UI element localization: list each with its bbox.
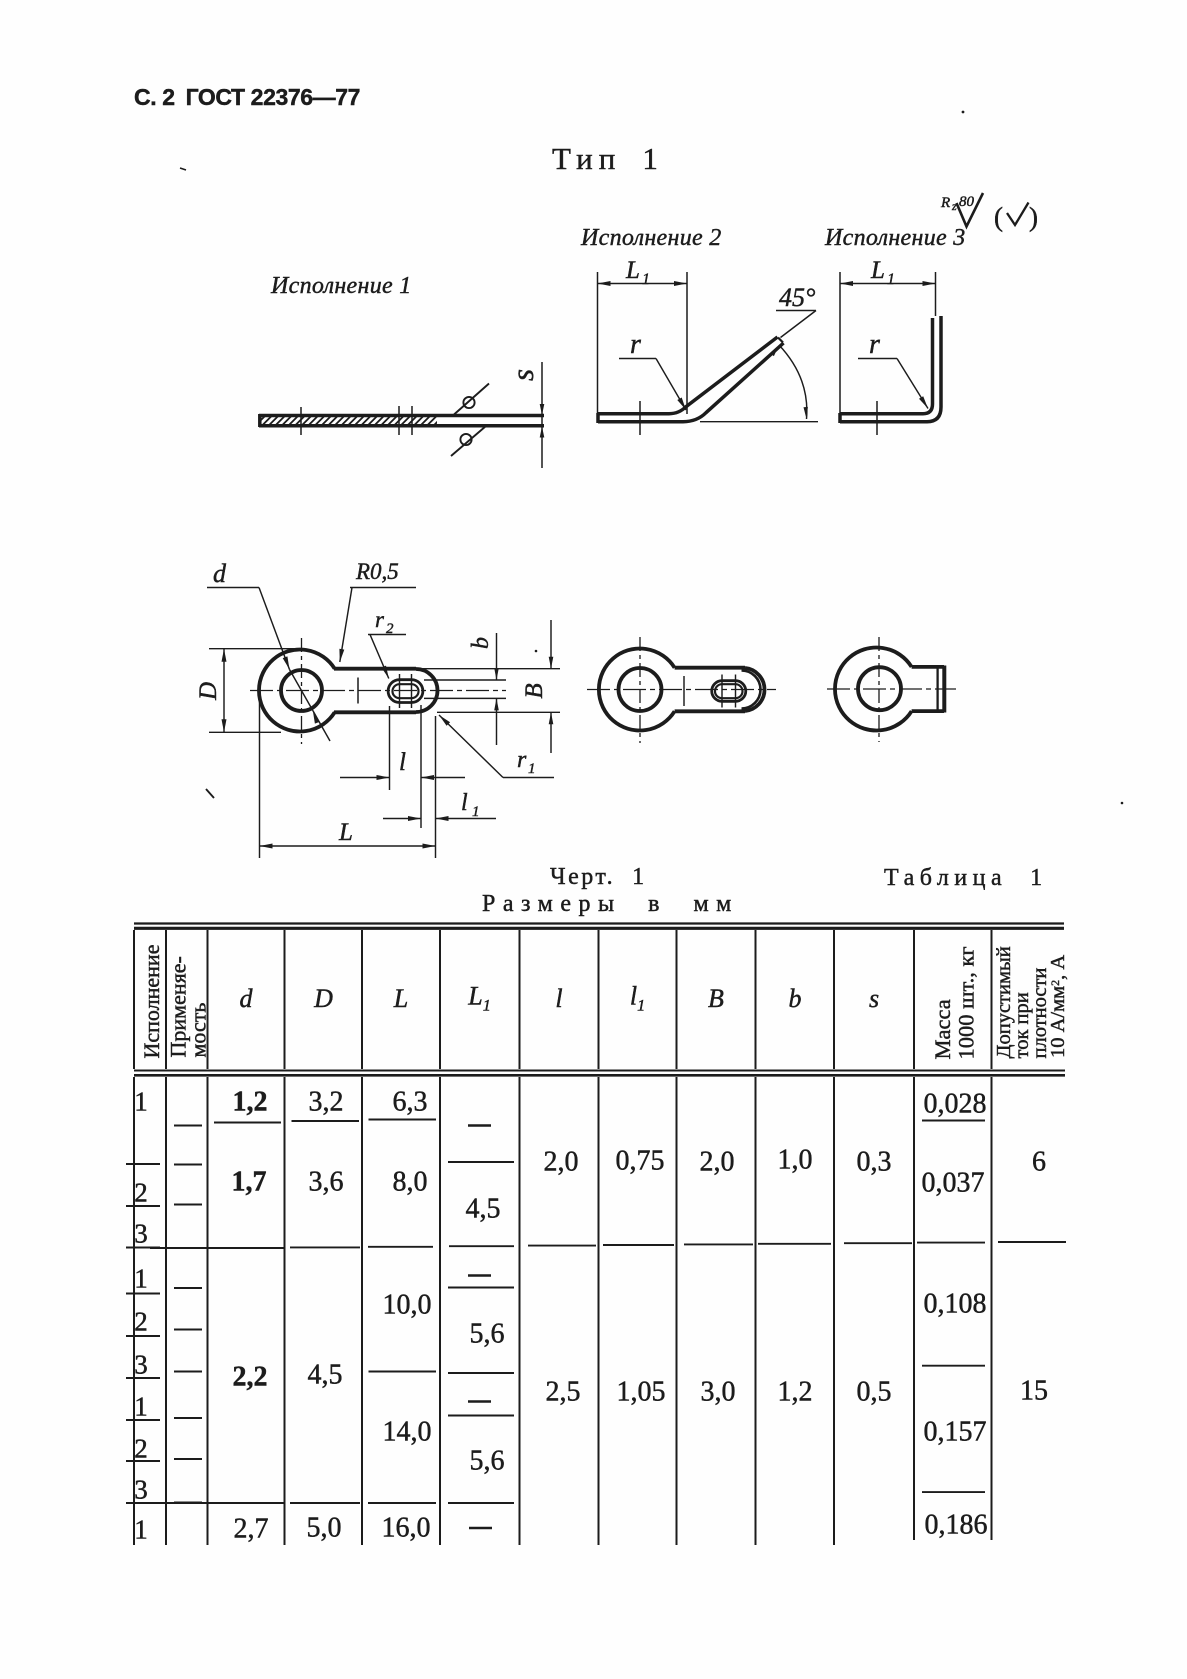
svg-text:1: 1: [642, 271, 650, 288]
L1 em-dashes: [468, 1124, 491, 1127]
body column lines: [133, 1077, 135, 1545]
centre tick on bar: [639, 401, 641, 435]
roughness symbol above bar: [463, 397, 474, 408]
dimension b (slot width): [424, 679, 506, 681]
svg-text:r: r: [517, 747, 527, 773]
svg-text:мость: мость: [186, 1003, 211, 1058]
caption Черт. 1: [550, 864, 647, 891]
centre tick on bar: [876, 401, 878, 435]
middle lug hole: [619, 668, 662, 711]
L1 rule below second dash: [448, 1415, 514, 1417]
column Масса values: [924, 1089, 987, 1121]
middle lug slot centre ticks: [721, 675, 723, 708]
L1 rule below first dash of group B: [448, 1287, 514, 1289]
bent bar 90° (Исполнение 3): [840, 318, 933, 414]
speckle marks: [180, 168, 186, 170]
column header letters: [240, 984, 253, 1014]
svg-text:Исполнение: Исполнение: [139, 945, 164, 1059]
cell rule in L1 column (below dash): [448, 1161, 514, 1163]
svg-text:80: 80: [959, 194, 975, 210]
column L1 values: [466, 1194, 501, 1226]
right lug hole: [858, 667, 901, 710]
svg-text:L: L: [625, 257, 640, 284]
column Исполнение row numbers: [134, 1086, 148, 1117]
svg-text:1: 1: [472, 804, 480, 820]
centre tick (hole d): [300, 407, 302, 435]
slot hole inner: [393, 684, 419, 698]
right lug bent tab edge-on: [942, 666, 946, 713]
middle lug slot outer: [712, 681, 746, 702]
dimension l (slot length): [389, 706, 391, 790]
dimension D (ring diameter): [209, 648, 302, 650]
L column rule between 10,0 and 14,0: [369, 1371, 437, 1373]
middle lug slot inner: [715, 684, 743, 698]
table header bottom double line: [134, 1070, 1065, 1072]
right lug ring outer: [835, 648, 912, 731]
svg-text:Исполнение 2: Исполнение 2: [580, 225, 722, 251]
svg-text:D: D: [195, 682, 222, 701]
svg-text:Масса: Масса: [930, 999, 955, 1059]
dimension B (bar width): [418, 668, 560, 670]
dimension L (total length): [259, 691, 261, 858]
header column lines: [133, 930, 135, 1069]
shared columns l, l1, B, b, s: [544, 1147, 579, 1179]
svg-text:45°: 45°: [779, 283, 815, 312]
vertical centre line of ring: [301, 638, 303, 744]
middle lug bar with round end: [675, 666, 745, 670]
bottom group separator: [150, 1502, 285, 1504]
svg-text:r: r: [375, 607, 385, 632]
svg-text:b: b: [468, 637, 494, 649]
slot hole outer: [388, 680, 423, 703]
svg-text:10 А/мм2, А: 10 А/мм2, А: [1047, 955, 1069, 1058]
svg-text:Исполнение 1: Исполнение 1: [270, 273, 412, 299]
bent bar 45° (Исполнение 2): [598, 337, 778, 414]
svg-text:1: 1: [528, 761, 536, 777]
Масса cell rules: [922, 1120, 985, 1122]
row separators, column Исполнение: [126, 1163, 160, 1165]
dashes, column Применяемость: [174, 1125, 202, 1127]
dimension L1 (Исполнение 3): [839, 272, 841, 421]
svg-text:1000 шт., кг: 1000 шт., кг: [954, 946, 979, 1059]
column d values: [233, 1087, 268, 1119]
svg-text:L: L: [338, 819, 353, 846]
centre ticks (slot): [398, 406, 400, 435]
lug bar outline with round end: [334, 667, 416, 671]
lug body: ring outer circle: [259, 649, 335, 731]
lug hole d: [281, 670, 322, 711]
svg-text:L: L: [870, 257, 885, 284]
svg-text:B: B: [521, 683, 548, 698]
slot centre ticks: [399, 674, 401, 708]
cell rule under D=3,2: [292, 1120, 360, 1122]
title Тип 1: [552, 141, 658, 177]
L1 rule above second dash: [448, 1372, 514, 1374]
horizontal centre line: [250, 690, 506, 692]
svg-text:R0,5: R0,5: [355, 559, 399, 584]
page header: [134, 84, 360, 111]
svg-text:r: r: [630, 329, 641, 360]
flat bar side view (Исполнение 1): [259, 414, 544, 418]
cell rule under L=6,3: [369, 1119, 437, 1121]
middle lug bent tip second arc: [742, 671, 761, 709]
caption Таблица 1: [884, 865, 1048, 892]
svg-text:r: r: [869, 329, 880, 360]
column ток values: [1032, 1147, 1046, 1179]
svg-text:l: l: [461, 790, 468, 816]
svg-text:Исполнение 3: Исполнение 3: [824, 225, 966, 251]
middle lug ring outer: [599, 649, 675, 731]
middle lug centre lines: [587, 689, 776, 691]
svg-text:z: z: [951, 199, 957, 213]
group separator line: [150, 1247, 285, 1249]
dimension L1 (Исполнение 2): [597, 272, 599, 421]
middle lug bar tick: [683, 676, 685, 706]
column L values: [393, 1087, 428, 1119]
right lug centre lines: [827, 688, 956, 690]
svg-text:l: l: [399, 749, 406, 776]
svg-text:R: R: [940, 195, 950, 211]
centre tick on bar: [357, 678, 359, 704]
roughness symbol below bar: [460, 434, 471, 445]
table top border: [134, 922, 1064, 924]
right lug bar: [912, 665, 944, 669]
svg-text:(: (: [994, 202, 1003, 232]
caption Размеры в мм: [482, 891, 739, 918]
dimension l1: [435, 716, 437, 858]
dimension s (thickness): [541, 362, 543, 468]
cell rule under d=1,2: [214, 1122, 281, 1124]
svg-text:s: s: [505, 369, 540, 381]
column D values: [309, 1087, 344, 1119]
svg-text:1: 1: [887, 271, 895, 288]
angle 45° dimension: [700, 421, 818, 423]
svg-text:): ): [1029, 202, 1038, 232]
svg-text:d: d: [213, 559, 227, 588]
